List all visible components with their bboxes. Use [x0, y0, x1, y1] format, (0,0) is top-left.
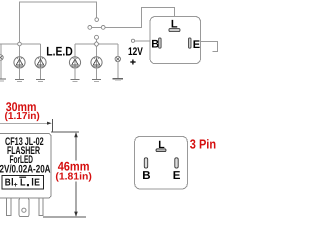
wire top loop from left node to switch	[20, 2, 97, 44]
extension line	[51, 119, 53, 132]
svg-text:L.E.D: L.E.D	[46, 44, 73, 58]
wire	[0, 60, 2, 79]
switch contact left	[88, 26, 92, 30]
extension line top 46mm	[51, 131, 79, 133]
svg-text:B: B	[151, 39, 159, 51]
label +	[130, 61, 135, 62]
wire	[96, 68, 98, 79]
LED D2	[35, 57, 46, 68]
terminal circle above node	[95, 35, 99, 39]
extension line bottom 46mm	[43, 216, 86, 218]
dimension arrow 46mm	[75, 133, 77, 161]
lamp DL2	[115, 56, 120, 61]
pin slot E	[175, 158, 178, 168]
pin slot B	[159, 38, 162, 48]
wire relay E to ground hook	[201, 42, 218, 52]
blade hole	[22, 208, 26, 212]
dimension arrow 30mm	[0, 122, 50, 124]
legend bar2	[32, 178, 33, 186]
LED D3	[69, 57, 80, 68]
legend bar1	[12, 178, 13, 186]
legend dot	[27, 184, 29, 186]
node A (left bus)	[18, 42, 22, 46]
svg-text:L: L	[20, 178, 26, 189]
wire stub	[96, 39, 98, 41]
svg-text:+: +	[14, 182, 18, 189]
legend overline	[19, 177, 26, 178]
svg-text:12V/0.02A-20A: 12V/0.02A-20A	[0, 164, 51, 176]
pin slot B	[144, 158, 147, 168]
svg-text:E: E	[173, 170, 181, 182]
node diamond	[94, 41, 99, 46]
terminal blade middle	[19, 198, 29, 217]
relay U1 (schematic box)	[150, 17, 201, 64]
lamp DL1 (clipped at left edge)	[0, 55, 3, 60]
svg-text:B: B	[142, 170, 150, 182]
pin slot E	[189, 38, 192, 48]
relay front view body	[0, 134, 51, 199]
wire switch to relay L	[105, 8, 174, 28]
switch contact right	[101, 26, 105, 30]
terminal blade left	[7, 198, 11, 215]
wire LED1 drop	[19, 46, 21, 57]
wire lamp1 drop	[0, 44, 2, 55]
wire LED4 drop	[96, 47, 98, 57]
ground	[92, 80, 101, 82]
relay bottom view body	[135, 137, 188, 189]
svg-text:(1.17in): (1.17in)	[5, 111, 40, 122]
LED D4	[91, 57, 102, 68]
svg-text:E: E	[193, 39, 200, 51]
svg-text:(1.81in): (1.81in)	[55, 172, 91, 183]
wire switch lever	[92, 26, 102, 28]
switch common terminal	[95, 18, 99, 22]
wire lamp2 drop	[117, 44, 119, 56]
pin slot L	[169, 28, 180, 31]
wire LED3 drop	[74, 44, 76, 57]
svg-text:12V: 12V	[128, 46, 143, 58]
wire	[74, 68, 76, 79]
wire to relay B	[135, 40, 150, 42]
battery terminal 12V+	[131, 39, 134, 42]
ground	[71, 80, 80, 82]
pinout legend box	[2, 175, 44, 189]
svg-text:B: B	[5, 178, 11, 189]
ground	[113, 79, 124, 81]
ground	[15, 80, 24, 82]
wire	[117, 62, 119, 79]
svg-text:E: E	[34, 178, 40, 189]
ground	[0, 79, 6, 81]
pin slot L	[156, 149, 166, 152]
wire LED2 drop	[40, 44, 42, 57]
wire	[19, 68, 21, 79]
wire right LED bus	[75, 43, 118, 45]
svg-text:3 Pin: 3 Pin	[190, 137, 216, 152]
LED D1	[14, 57, 25, 68]
ground	[36, 80, 45, 82]
wire left LED bus	[0, 43, 41, 45]
terminal blade right	[39, 198, 43, 215]
wire	[40, 68, 42, 79]
